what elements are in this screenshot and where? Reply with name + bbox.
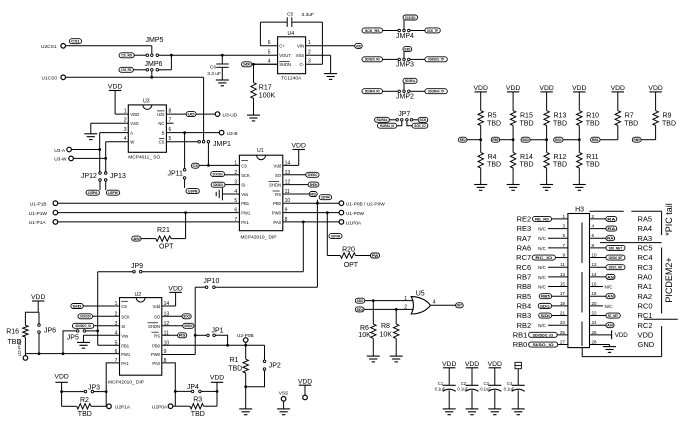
svg-text:R16: R16 [6, 329, 19, 336]
svg-text:RA6: RA6 [517, 243, 532, 252]
svg-text:SO: SO [154, 314, 161, 319]
svg-text:RE_RS: RE_RS [535, 216, 549, 221]
svg-text:JMP1: JMP1 [213, 141, 231, 148]
node U2CS1 connector [61, 44, 66, 49]
wire U1 pin9 PW0 [283, 212, 339, 214]
net label at U2 pin3 SI [72, 323, 93, 328]
svg-text:VSS: VSS [279, 391, 289, 397]
svg-text:U1CS0: U1CS0 [42, 76, 58, 82]
svg-text:U1-P0W: U1-P0W [346, 211, 365, 217]
svg-text:SDI/SDO: SDI/SDO [308, 172, 318, 177]
resistor R7 TBD [617, 92, 619, 111]
net label left of JMP4 [362, 28, 383, 33]
svg-text:10K: 10K [380, 331, 393, 338]
svg-text:C-: C- [300, 62, 305, 67]
svg-text:U1-P1B: U1-P1B [30, 202, 47, 208]
svg-text:N/C: N/C [605, 285, 614, 290]
svg-text:4: 4 [592, 224, 595, 229]
svg-text:PICDEM2+: PICDEM2+ [664, 257, 674, 302]
svg-text:3: 3 [562, 224, 565, 229]
svg-text:VDD: VDD [488, 361, 502, 368]
svg-text:U3-UD: U3-UD [223, 112, 238, 118]
svg-text:VDD: VDD [638, 330, 654, 339]
wire U2 pin7 PA1 down [106, 363, 119, 406]
svg-text:PB1: PB1 [121, 343, 130, 348]
net label right of JMP2 [425, 89, 447, 94]
svg-text:R3: R3 [193, 396, 202, 403]
svg-text:RC4: RC4 [638, 253, 653, 262]
svg-text:SO: SO [275, 173, 282, 178]
svg-text:U2P1A: U2P1A [115, 405, 131, 411]
resistor R12 TBD [546, 140, 548, 153]
svg-text:U3PB: U3PB [188, 189, 198, 194]
net label at U1 pin12 SHDN [283, 184, 308, 186]
ground at U2 Vss [77, 341, 90, 343]
svg-text:22: 22 [592, 311, 598, 316]
svg-text:CS1: CS1 [71, 39, 81, 44]
ground below R8 [390, 355, 403, 357]
svg-text:JP2: JP2 [269, 363, 281, 370]
svg-text:RB3/SDO: RB3/SDO [555, 137, 562, 142]
svg-text:R12: R12 [554, 154, 567, 161]
ground at H3 pin28 [603, 346, 616, 348]
svg-text:RE2: RE2 [460, 137, 467, 142]
svg-text:12: 12 [592, 262, 598, 267]
svg-text:SI: SI [241, 183, 245, 188]
svg-text:RB4/SDI: RB4/SDI [522, 137, 529, 142]
wire JP9 left riser down to U2 PB1 [97, 272, 99, 346]
svg-text:SCK: SCK [121, 314, 130, 319]
svg-text:SCK_RS: SCK_RS [365, 28, 380, 33]
svg-text:RC_IO: RC_IO [535, 255, 552, 260]
svg-text:SDI_NET: SDI_NET [609, 245, 623, 250]
net label U1P0W on R20 riser [326, 213, 328, 256]
svg-text:SHDN: SHDN [310, 182, 318, 187]
svg-text:3.3uF: 3.3uF [302, 12, 314, 18]
svg-text:SDI: SDI [404, 47, 410, 52]
svg-text:U3-B: U3-B [227, 131, 238, 137]
svg-text:PW0: PW0 [272, 211, 282, 216]
ground below R17 [247, 114, 260, 116]
net label on JMP6 left [119, 67, 133, 72]
svg-text:VDD: VDD [572, 85, 586, 92]
svg-text:VDD: VDD [611, 85, 625, 92]
svg-text:U3: U3 [143, 99, 150, 105]
svg-text:JP9: JP9 [131, 263, 143, 270]
svg-text:RB1: RB1 [592, 137, 599, 142]
node U1CS0 connector [61, 75, 66, 80]
svg-text:U3PA: U3PA [88, 190, 98, 195]
svg-text:VDD: VDD [54, 373, 68, 380]
net label SHDN at U4 pin4 [242, 62, 252, 67]
resistor R10 TBD [578, 92, 580, 111]
svg-text:25: 25 [560, 330, 566, 335]
svg-text:RA1: RA1 [638, 282, 653, 291]
op-amp U4 TC1240A box [278, 37, 306, 74]
svg-text:RB8: RB8 [517, 282, 532, 291]
svg-text:16: 16 [592, 282, 598, 287]
svg-text:11: 11 [560, 262, 565, 267]
wire U4 VSS to ground [330, 55, 332, 73]
resistor R5 TBD [480, 92, 482, 111]
node U1-P1A connector [53, 220, 58, 225]
svg-text:TBD: TBD [520, 120, 534, 127]
wire U2 pin6 PW1 net U2-P1W [25, 353, 119, 355]
svg-text:RA4: RA4 [638, 224, 653, 233]
net label SI at U2 pin1 [71, 304, 84, 309]
svg-text:PB0: PB0 [152, 343, 161, 348]
svg-text:SDI/SDO_IO: SDI/SDO_IO [533, 332, 554, 337]
svg-text:19: 19 [560, 301, 566, 306]
svg-text:SDI/SCL_NET: SDI/SCL_NET [609, 265, 623, 270]
svg-text:U2CS1: U2CS1 [41, 44, 57, 50]
svg-text:JMP2: JMP2 [396, 94, 414, 101]
svg-text:26: 26 [592, 330, 598, 335]
svg-text:VDD: VDD [474, 85, 488, 92]
svg-text:28: 28 [592, 340, 598, 345]
resistor R3 TBD [175, 405, 190, 407]
net label JP7 left bottom [377, 123, 396, 128]
wire U1 pin7 PA1 [58, 221, 240, 223]
ground at U4 VSS [324, 73, 337, 75]
svg-text:AN: AN [607, 294, 614, 299]
svg-text:C3: C3 [484, 381, 490, 386]
svg-text:R10: R10 [586, 112, 599, 119]
svg-text:RA: RA [607, 226, 615, 231]
svg-text:C5: C5 [287, 11, 293, 17]
wire JMP6 right riser to VOUT line [159, 69, 172, 71]
net label JP7 left top [375, 117, 390, 122]
svg-text:RA0: RA0 [638, 272, 653, 281]
wire JP10 left riser down to U2 PW0 [194, 287, 196, 354]
svg-text:SCK/SDI: SCK/SDI [213, 172, 223, 177]
svg-text:VDD: VDD [506, 85, 520, 92]
svg-text:CS: CS [193, 163, 199, 168]
net label on JMP5 left [119, 53, 134, 58]
svg-text:JP3: JP3 [88, 384, 100, 391]
svg-text:18: 18 [592, 291, 598, 296]
svg-text:VOUT: VOUT [279, 53, 291, 58]
svg-text:RB2: RB2 [517, 321, 532, 330]
svg-text:R11: R11 [586, 154, 598, 161]
net label SO at U1 pin13 [283, 174, 306, 176]
svg-text:PB1: PB1 [241, 201, 250, 206]
wire below H3 [582, 348, 661, 357]
svg-text:SDO/RA4: SDO/RA4 [405, 78, 416, 83]
net label SDI at U1 pin3 [211, 182, 225, 187]
svg-text:B: B [162, 131, 165, 136]
svg-text:PA1: PA1 [241, 220, 249, 225]
resistor R16 TBD [25, 312, 38, 325]
svg-text:U2-P0B: U2-P0B [237, 333, 254, 339]
node U3-A connector [67, 147, 72, 152]
svg-text:RB5: RB5 [541, 294, 551, 299]
svg-text:PA1: PA1 [121, 361, 129, 366]
svg-text:R21: R21 [157, 227, 170, 234]
svg-text:4: 4 [268, 59, 271, 65]
svg-text:VDD: VDD [648, 85, 662, 92]
svg-text:Vdd: Vdd [153, 304, 161, 309]
svg-text:RC3: RC3 [638, 263, 653, 272]
svg-text:R1: R1 [230, 357, 239, 364]
svg-text:SHDN: SHDN [148, 324, 160, 329]
svg-text:N/C: N/C [538, 323, 547, 328]
svg-text:NC: NC [158, 121, 164, 126]
svg-text:PW: PW [372, 253, 379, 258]
svg-text:U5: U5 [416, 290, 425, 297]
svg-text:15: 15 [560, 282, 566, 287]
svg-text:TBD: TBD [586, 162, 600, 169]
svg-text:0.1uF: 0.1uF [457, 387, 468, 392]
svg-text:Vdd: Vdd [274, 163, 282, 168]
svg-text:0.1uF: 0.1uF [480, 387, 491, 392]
svg-text:U2P0A: U2P0A [152, 404, 168, 410]
bracket divider under RC1 [644, 318, 678, 320]
svg-text:RA5: RA5 [638, 215, 653, 224]
svg-text:RB7: RB7 [517, 272, 532, 281]
svg-text:RA7: RA7 [517, 234, 532, 243]
net label CS at U1 pin1 [192, 163, 200, 168]
svg-text:N/C: N/C [538, 236, 547, 241]
svg-text:Vss: Vss [241, 192, 248, 197]
svg-text:100K: 100K [259, 92, 276, 99]
svg-text:SDI: SDI [541, 313, 550, 318]
svg-text:RC_NET: RC_NET [608, 313, 619, 318]
svg-text:JP12: JP12 [81, 173, 97, 180]
svg-text:C+: C+ [279, 44, 285, 49]
resistor R14 TBD [512, 140, 514, 153]
resistor R8 10K [395, 309, 397, 324]
svg-text:VDD: VDD [130, 112, 139, 117]
ground below R4 [474, 184, 487, 186]
svg-text:*PIC tail: *PIC tail [664, 203, 674, 236]
svg-text:PA0: PA0 [273, 220, 281, 225]
svg-text:SID: SID [73, 303, 82, 308]
resistor R15 TBD [512, 92, 514, 111]
capacitor C5 3.3uF across U4 [259, 22, 261, 46]
svg-text:SDO/RA4_TP: SDO/RA4_TP [428, 89, 444, 94]
svg-text:N/C: N/C [538, 265, 547, 270]
svg-text:TBD: TBD [624, 120, 638, 127]
resistor R4 TBD [480, 140, 482, 153]
node U3-UD connector [215, 112, 220, 117]
net label UD [186, 112, 196, 117]
svg-text:CS: CS [121, 304, 127, 309]
svg-text:VDD: VDD [298, 379, 312, 386]
svg-text:VIN: VIN [297, 44, 304, 49]
svg-text:INT: INT [457, 303, 463, 308]
node U2-P0B connector [243, 338, 248, 343]
svg-text:1: 1 [562, 214, 565, 219]
ground at U3 VSS [84, 133, 97, 135]
svg-text:SCK_TP: SCK_TP [427, 28, 438, 33]
net label JP7 right top [418, 117, 428, 122]
svg-text:RB5: RB5 [517, 292, 532, 301]
wire JMP6 center drop to U1CS0 line [151, 71, 153, 77]
ground rotated at U1 Vss [221, 188, 223, 201]
svg-text:SDO: SDO [183, 314, 190, 319]
net label at U2 pin2 SCK [78, 314, 93, 319]
net label at U2 pin12 SHDN [162, 325, 183, 327]
net label above JMP3 [403, 47, 412, 52]
svg-text:SDO: SDO [540, 303, 550, 308]
svg-text:0.1uF: 0.1uF [435, 387, 446, 392]
ground below R14 [507, 184, 520, 186]
svg-text:TBD: TBD [228, 366, 242, 373]
svg-text:RB0: RB0 [634, 137, 640, 142]
svg-text:3: 3 [308, 59, 311, 65]
net label U2P0W on riser [319, 195, 331, 200]
wire U2 pin10 PB0 to R1 node [162, 344, 265, 346]
svg-text:10: 10 [592, 253, 598, 258]
svg-text:JP1: JP1 [212, 327, 224, 334]
net label right of JMP3 [425, 57, 447, 62]
wire JMP1 right drop to U1 CS [207, 143, 209, 165]
svg-text:U1P0A: U1P0A [346, 220, 362, 226]
svg-text:AN: AN [607, 323, 613, 328]
net label CS1 on U2CS1 wire [69, 39, 81, 44]
svg-text:TBD: TBD [191, 411, 205, 418]
svg-text:JMP5: JMP5 [146, 37, 164, 44]
net label tap of R15 [491, 137, 500, 142]
svg-text:SHDN: SHDN [243, 62, 251, 67]
svg-text:RB5: RB5 [492, 137, 499, 142]
net label SCK_RS at U1 pin2 [211, 172, 225, 177]
net label VDD at U4 VIN [355, 43, 363, 48]
svg-text:14: 14 [592, 272, 598, 277]
resistor R11 TBD [578, 140, 580, 153]
svg-text:SI/SO_IO: SI/SO_IO [533, 342, 554, 347]
svg-text:RA/RA4_IO: RA/RA4_IO [380, 123, 394, 128]
svg-text:R15: R15 [520, 112, 533, 119]
svg-text:U2P0W: U2P0W [321, 195, 330, 200]
resistor R2 TBD [62, 405, 77, 407]
ground below C3 [488, 408, 501, 410]
svg-text:GND: GND [638, 340, 655, 349]
svg-text:AN: AN [607, 274, 614, 279]
svg-text:RS: RS [179, 333, 186, 338]
svg-text:SCK/SD: SCK/SD [405, 15, 416, 20]
svg-text:SDI/SDO_NET: SDI/SDO_NET [609, 255, 623, 260]
svg-text:PW0: PW0 [151, 352, 161, 357]
net label right of R20 [370, 253, 379, 258]
wire U1 pin8 PA0 [283, 221, 339, 223]
svg-text:SDI/SDO_IO: SDI/SDO_IO [75, 323, 90, 328]
node U1-P0W connector [339, 210, 344, 215]
svg-text:VDD: VDD [442, 361, 456, 368]
ground below C1 [443, 408, 456, 410]
svg-text:JMP6: JMP6 [145, 61, 163, 68]
svg-text:N/C: N/C [605, 304, 614, 309]
svg-text:U2: U2 [135, 292, 142, 298]
svg-text:TBD: TBD [586, 120, 600, 127]
svg-text:RC7: RC7 [516, 253, 531, 262]
svg-text:5: 5 [268, 50, 271, 56]
svg-text:RC0: RC0 [638, 301, 653, 310]
svg-text:VDD: VDD [356, 43, 362, 48]
svg-text:W: W [130, 140, 134, 145]
net label above JMP4 [403, 15, 418, 20]
ground below C4 [512, 408, 525, 410]
resistor R13 TBD [546, 92, 548, 111]
ground below VSS node [277, 408, 290, 410]
svg-text:SDI/SDO: SDI/SDO [213, 182, 223, 187]
net label right of JMP4 [425, 28, 440, 33]
connector H3 box [568, 214, 590, 348]
svg-text:PW1: PW1 [241, 211, 251, 216]
svg-text:SCK: SCK [241, 173, 250, 178]
ground below C6 [216, 79, 229, 81]
node U2P0A connector [168, 404, 173, 409]
wire U1 pin5 PB1 [58, 202, 240, 204]
ground below R12 [540, 184, 553, 186]
svg-text:20: 20 [592, 301, 598, 306]
svg-text:RA: RA [607, 236, 613, 241]
ground below R6 [367, 355, 380, 357]
svg-text:TBD: TBD [662, 120, 676, 127]
resistor R9 TBD [655, 92, 657, 111]
pot U3 MCP4011_SO box [128, 105, 166, 152]
bracket PICDEM2+ lower [661, 326, 663, 357]
svg-text:R2: R2 [80, 397, 89, 404]
svg-text:RB4: RB4 [517, 301, 532, 310]
svg-text:N/C: N/C [538, 227, 547, 232]
node U1-P1B connector [53, 201, 58, 206]
node U2P1A connector [107, 404, 112, 409]
svg-text:A: A [130, 131, 133, 136]
svg-text:RB1: RB1 [513, 330, 528, 339]
svg-text:C6: C6 [210, 65, 216, 71]
svg-text:C2: C2 [461, 381, 467, 386]
svg-text:R17: R17 [259, 85, 272, 92]
svg-text:VDD: VDD [108, 84, 122, 91]
svg-text:TBD: TBD [8, 339, 22, 346]
svg-text:MCP42010_ DIP: MCP42010_ DIP [108, 380, 144, 386]
svg-text:U1P0W: U1P0W [331, 234, 341, 239]
svg-text:5: 5 [562, 233, 565, 238]
svg-text:JP5: JP5 [67, 335, 79, 342]
net label tap of R10 [554, 137, 563, 142]
svg-text:VDD: VDD [168, 285, 182, 292]
svg-text:U3PW: U3PW [108, 190, 118, 195]
wire U2 pin4 Vss to ground [84, 334, 120, 336]
wire U1 pin6 PW1 [58, 212, 240, 214]
svg-text:UD: UD [188, 112, 195, 117]
svg-text:N/C: N/C [538, 285, 547, 290]
svg-text:SDI: SDI [357, 307, 363, 312]
svg-text:U4: U4 [288, 31, 295, 37]
svg-text:9: 9 [562, 253, 565, 258]
svg-text:TBD: TBD [487, 162, 501, 169]
svg-text:U3-W: U3-W [54, 157, 67, 163]
svg-text:RC2: RC2 [638, 321, 653, 330]
svg-text:U1-P1W: U1-P1W [29, 211, 48, 217]
svg-text:U3-A: U3-A [54, 148, 66, 154]
svg-text:VSS: VSS [296, 53, 305, 58]
svg-text:CS: CS [241, 163, 247, 168]
svg-text:RC6: RC6 [516, 263, 531, 272]
net label left of JMP3 [362, 57, 383, 62]
ground below C2 [466, 408, 479, 410]
capacitor C6 3.3uF [221, 55, 223, 64]
svg-text:VDD: VDD [292, 142, 306, 149]
svg-text:Vss: Vss [121, 333, 128, 338]
svg-text:JP7: JP7 [398, 111, 410, 118]
svg-text:TBD: TBD [487, 120, 501, 127]
svg-text:17: 17 [560, 291, 566, 296]
svg-text:10K: 10K [358, 332, 371, 339]
svg-text:CS: CS [159, 140, 165, 145]
